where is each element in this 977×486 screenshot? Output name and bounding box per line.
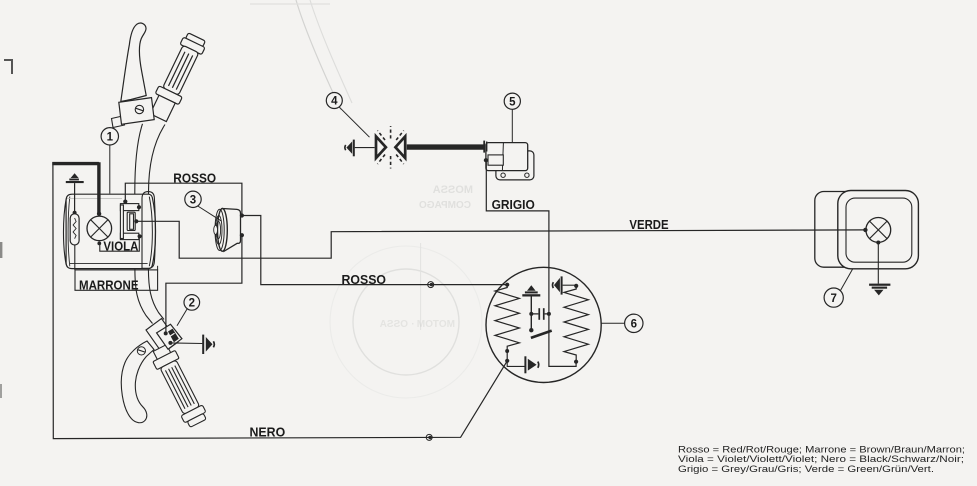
svg-text:MOTOM · OSSA: MOTOM · OSSA — [380, 319, 455, 330]
headlamp shell inner bottom edge — [70, 263, 148, 265]
connector on ROSSO wire — [428, 282, 434, 288]
item circle 3 — [185, 191, 201, 207]
svg-text:VIOLA: VIOLA — [103, 239, 139, 254]
spark rays (dashed) — [378, 126, 404, 169]
wire GRIGIO: coil to magneto points — [486, 160, 576, 366]
lever 2 blade — [121, 341, 154, 423]
wire stop switch to ground — [170, 342, 202, 345]
coil HT insulator — [483, 141, 485, 153]
wire VIOLA: bulb to switch — [99, 236, 139, 251]
connector on NERO wire — [426, 434, 432, 440]
tail lamp nodes — [863, 228, 867, 232]
node: bulb top — [97, 212, 101, 216]
stop switch on lever 2 (item 2) — [157, 324, 182, 349]
headlamp shell (item 1 body) — [66, 194, 155, 268]
node: bulb bottom — [97, 242, 101, 246]
handlebar tube below shell down to lever 2 — [135, 269, 164, 324]
ground symbol at right coil top (pointing left) — [563, 284, 577, 286]
ignition coil T1 (item 5): mounting base plate — [496, 151, 534, 180]
headlamp shell left rim arc — [63, 199, 66, 265]
svg-text:VERDE: VERDE — [629, 217, 668, 232]
wire ROSSO: switch to horn top — [125, 183, 242, 215]
stop switch contact mark — [168, 329, 179, 343]
item circle 6 — [625, 314, 643, 332]
svg-text:NERO: NERO — [250, 425, 286, 440]
node: coil LT terminal — [484, 158, 488, 162]
switch terminal nodes — [123, 200, 127, 204]
flywheel magneto (item 6): outer circle — [486, 267, 601, 382]
svg-text:6: 6 — [631, 319, 637, 331]
svg-text:MOSSA: MOSSA — [433, 184, 473, 196]
wire ROSSO: horn to magneto lighting coil — [242, 216, 507, 285]
spark plug gap (item 4): frame ground symbol left — [353, 140, 355, 157]
svg-text:4: 4 — [331, 96, 338, 108]
item circle 5 — [504, 93, 520, 109]
condenser C1 — [538, 308, 540, 320]
lever 2 grip — [149, 342, 210, 429]
wire VERDE: switch to tail lamp — [136, 221, 865, 258]
ground symbol at left coil bottom (pointing right) — [507, 361, 524, 367]
wire: coil 5 leader stub — [511, 109, 513, 142]
coil LT block — [488, 155, 503, 165]
item circle 7 — [824, 288, 843, 307]
scan edge marks — [4, 60, 12, 74]
tail lamp ground wire — [877, 243, 879, 284]
main headlamp bulb — [87, 216, 112, 241]
horn face dome — [218, 209, 228, 252]
stem from ground to condenser/points — [530, 297, 532, 331]
spark plug electrode right triangle — [395, 136, 405, 158]
wire: pilot lamp down to MARRONE frame — [74, 245, 76, 270]
stop switch terminal nodes — [164, 331, 168, 335]
lever 1 pivot screw — [135, 105, 143, 113]
lever 2 pivot screw — [137, 347, 145, 355]
svg-text:3: 3 — [190, 195, 196, 207]
handlebar tube from lever 1 down to headlamp shell — [135, 124, 165, 194]
steering fork head capsule behind shell — [142, 192, 155, 269]
horn H1 (item 3): body cone — [223, 209, 241, 252]
svg-text:ROSSO: ROSSO — [342, 272, 387, 287]
coil body — [486, 143, 528, 171]
spark plug gap: wire to electrode — [355, 147, 375, 149]
tail lamp (item 7): back plate — [815, 192, 882, 268]
brake lever assembly (rear brake, item 2): mount block — [146, 319, 178, 354]
node: horn terminals — [240, 213, 244, 217]
svg-text:5: 5 — [509, 96, 516, 108]
lighting coil L1 (left zigzag) — [495, 285, 519, 361]
pilot lamp (in headlamp) — [70, 214, 79, 245]
coil mounting holes — [501, 173, 505, 177]
ghost mirrored text (scan bleed-through) — [380, 184, 473, 330]
contact breaker points arm — [531, 331, 552, 338]
chassis ground symbol inside magneto (top middle) — [527, 285, 536, 290]
spark plug electrode left triangle — [376, 136, 386, 158]
chassis ground symbol above headlamp — [71, 173, 79, 178]
MARRONE label frame — [75, 270, 158, 290]
wire ground symbol to pilot lamp — [74, 183, 76, 213]
item circle 4 — [326, 93, 342, 109]
svg-text:COMPAGO: COMPAGO — [419, 200, 471, 211]
svg-text:MARRONE: MARRONE — [79, 277, 139, 292]
brake lever 1: blade lower tab — [112, 116, 125, 128]
ghost flywheel circle (scan bleed-through) — [353, 269, 459, 375]
brake lever assembly (front brake, item 1): grip — [146, 31, 208, 123]
HT cable plug-to-coil (thick) — [407, 144, 485, 149]
svg-text:GRIGIO: GRIGIO — [492, 197, 535, 212]
tail lamp inner rim — [846, 198, 912, 262]
wire NERO: ground loop frame to magneto — [53, 162, 507, 438]
item circle 2 — [184, 295, 200, 311]
tail lamp chassis ground symbol (pointing down) — [869, 284, 890, 286]
svg-text:7: 7 — [830, 293, 836, 305]
tail lamp bulb — [866, 218, 891, 243]
node dots inside magneto — [505, 283, 509, 287]
brake lever 1: blade — [121, 23, 146, 101]
brake lever 1: clamp/mount block — [119, 98, 154, 125]
ground symbol at stop switch (pointing right) — [202, 335, 204, 354]
tail lamp front housing — [838, 191, 919, 269]
headlamp shell right rim arc — [149, 197, 152, 267]
lighting switch in headlamp — [120, 204, 138, 240]
node: pilot lamp top — [73, 211, 77, 215]
page bleed-through ghost curve A (decorative scan artifact) — [296, 0, 341, 110]
ignition source coil L2 (right zigzag) — [564, 286, 588, 362]
thick ground jumper wire (top of frame loop) — [52, 162, 99, 213]
wire MARRONE: horn bottom to stop switch — [166, 235, 242, 333]
svg-text:ROSSO: ROSSO — [173, 170, 216, 185]
item circle 1 — [101, 128, 118, 145]
svg-text:1: 1 — [107, 132, 114, 144]
svg-text:Grigio = Grey/Grau/Gris; Verde: Grigio = Grey/Grau/Gris; Verde = Green/G… — [678, 464, 934, 475]
svg-text:2: 2 — [189, 298, 195, 310]
